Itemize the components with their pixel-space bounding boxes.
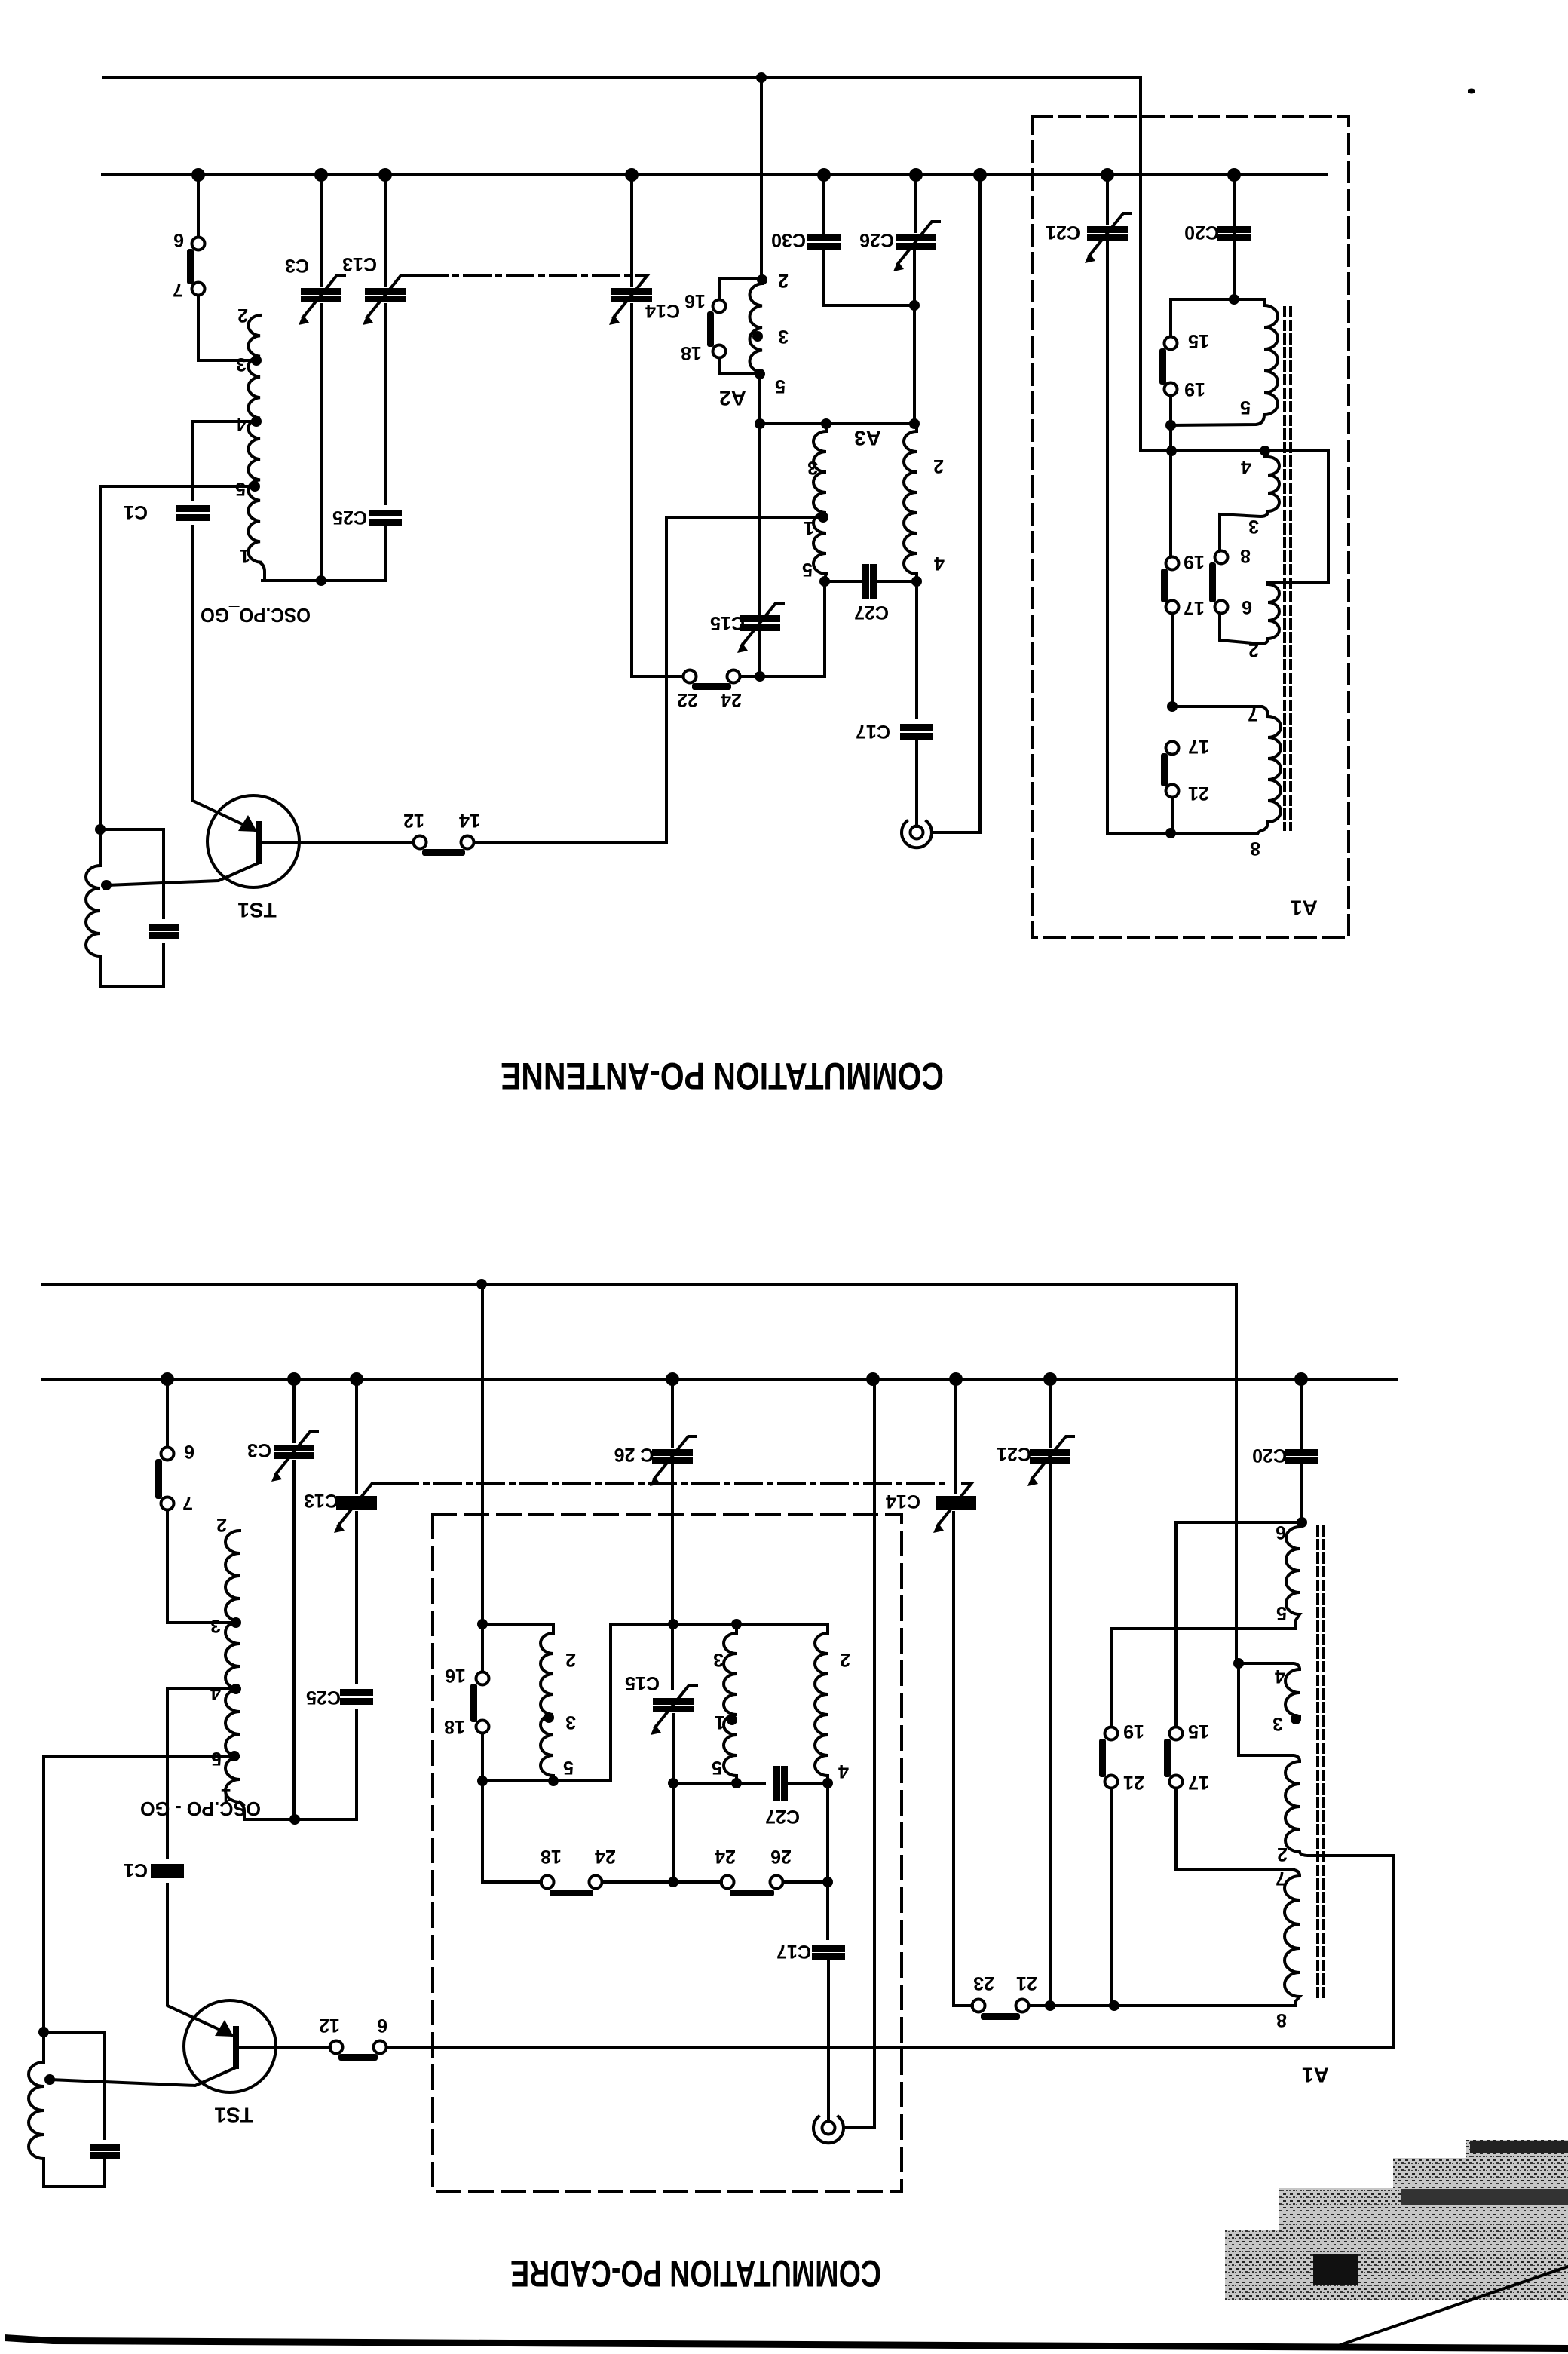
junction bus x=426 bbox=[314, 168, 328, 182]
svg-text:C13: C13 bbox=[342, 253, 377, 274]
svg-text:C26: C26 bbox=[859, 229, 894, 250]
junction C15 node bbox=[668, 1778, 678, 1788]
wire terminal to bus return bbox=[932, 175, 980, 832]
inductor A3 right winding bbox=[904, 424, 917, 574]
wire feed down to winding 2 bbox=[1239, 1663, 1300, 1761]
junction pin1 rail / C3 (lower) bbox=[289, 1814, 300, 1825]
junction A3R bottom bbox=[911, 576, 922, 587]
wire contact18 to A2 pin5 bbox=[719, 358, 759, 373]
switch bar 19-21 bbox=[1099, 1739, 1106, 1777]
wire feed col to cadre top row bbox=[482, 1284, 541, 1882]
wire contact14 to A3 pin1 riser bbox=[474, 517, 666, 842]
switch contact 24a bbox=[590, 1876, 602, 1889]
capacitor C14 trimmer (lower) bbox=[936, 1496, 976, 1503]
svg-text:19: 19 bbox=[1184, 379, 1205, 400]
svg-text:19: 19 bbox=[1123, 1721, 1144, 1742]
junction row / C21 (lower) bbox=[1045, 2000, 1055, 2011]
wire coil1 left side bbox=[1169, 299, 1172, 336]
junction osc pin1 rail / C3 bbox=[316, 575, 326, 586]
switch bar 6-7 bbox=[187, 249, 194, 284]
wire emitter row to A1 right side (lower) bbox=[387, 1856, 1394, 2047]
capacitor C27 (lower) bbox=[773, 1766, 780, 1801]
junction bus x=511 bbox=[378, 168, 392, 182]
junction switch row mid bbox=[668, 1877, 678, 1887]
junction winding3 bottom bbox=[822, 1778, 833, 1788]
svg-text:6: 6 bbox=[377, 2015, 387, 2036]
junction bus2 x=1268 bbox=[949, 1372, 963, 1386]
wire bus to C13 bbox=[384, 175, 387, 285]
junction row / switch21 line bbox=[1109, 2000, 1119, 2011]
wire tank bottom loop bbox=[100, 945, 164, 986]
wire C3 to osc pin1 rail bbox=[320, 305, 323, 581]
inductor A1 winding 6-2 bbox=[1220, 583, 1328, 644]
svg-text:OSC.PO - GO: OSC.PO - GO bbox=[140, 1798, 261, 1820]
junction feed / winding4 (lower) bbox=[1233, 1658, 1244, 1669]
wire C21 down (lower) bbox=[1049, 1466, 1052, 2006]
switch contact 26 bbox=[770, 1876, 783, 1889]
switch contact 18 bbox=[713, 345, 726, 358]
svg-text:C14: C14 bbox=[886, 1491, 920, 1512]
tap A3 pin1 bbox=[818, 512, 828, 523]
svg-text:C14: C14 bbox=[645, 300, 680, 321]
wire bus to contact6 bbox=[166, 1379, 169, 1447]
wire bus to C14 (lower) bbox=[954, 1379, 957, 1493]
inductor tank coil (lower) bbox=[29, 2032, 44, 2159]
svg-text:C21: C21 bbox=[1046, 222, 1080, 243]
junction node mid (A3 pin3) bbox=[821, 418, 831, 429]
switch bar 22-24 bbox=[692, 683, 731, 690]
svg-text:2: 2 bbox=[933, 455, 944, 477]
svg-text:5: 5 bbox=[712, 1757, 722, 1778]
svg-text:A3: A3 bbox=[854, 427, 881, 450]
wire C21 to A1 coil3 bottom bbox=[1107, 243, 1257, 833]
junction cadre mid row left bbox=[477, 1776, 488, 1786]
capacitor C15 trimmer (upper) bbox=[740, 615, 780, 622]
ferrite core dashes (upper A1) bbox=[1285, 308, 1291, 829]
TS1 emitter lead to switch 12 (lower) bbox=[239, 2046, 330, 2049]
wire C13 to C25 bbox=[384, 305, 387, 504]
wire A3 pin1 to emitter riser bbox=[666, 516, 823, 519]
junction bus x=1300 bbox=[973, 168, 987, 182]
junction top row at coil 3-1-5 bbox=[731, 1619, 742, 1629]
svg-text:5: 5 bbox=[235, 478, 246, 499]
inductor osc transformer PO-GO winding (upper) bbox=[248, 315, 260, 562]
antenna terminal (lower) bbox=[813, 2116, 844, 2143]
svg-text:2: 2 bbox=[1248, 639, 1259, 661]
wire A2 pin5 to node bbox=[758, 374, 761, 424]
svg-text:6: 6 bbox=[1276, 1522, 1286, 1543]
svg-text:C1: C1 bbox=[124, 1859, 148, 1880]
svg-text:21: 21 bbox=[1016, 1972, 1037, 1994]
switch contact 7 (upper) bbox=[192, 283, 205, 296]
capacitor C26 trimmer bbox=[896, 234, 936, 241]
svg-text:17: 17 bbox=[1184, 597, 1205, 618]
wire top row C15 to coil2 bbox=[673, 1623, 828, 1626]
svg-text:24: 24 bbox=[715, 1846, 736, 1867]
svg-text:A1: A1 bbox=[1291, 897, 1318, 920]
wire A1 mid row (lower) bbox=[1111, 1627, 1295, 1630]
switch bar 18-24 bbox=[550, 1890, 593, 1896]
svg-text:C30: C30 bbox=[771, 229, 806, 250]
svg-text:C21: C21 bbox=[997, 1443, 1031, 1464]
switch contact 17 bbox=[1166, 601, 1179, 614]
svg-text:3: 3 bbox=[565, 1712, 576, 1733]
bus: lower supply rail bbox=[43, 1378, 1396, 1381]
wire A3L bottom to pin5 junction bbox=[825, 574, 826, 581]
svg-text:C17: C17 bbox=[776, 1941, 811, 1962]
switch bar 12-14 bbox=[422, 849, 465, 856]
wire A2 pin 2 riser (crosses bus) bbox=[760, 78, 763, 278]
inductor A1 winding 2 (lower) bbox=[1285, 1761, 1394, 1856]
switch bar 15-19 bbox=[1159, 348, 1166, 385]
wire C17 to terminal (lower) bbox=[827, 1959, 830, 2122]
wire osc coil pin1 to bottom rail bbox=[260, 562, 385, 581]
capacitor C26 trimmer (lower) bbox=[652, 1449, 693, 1456]
svg-text:C1: C1 bbox=[124, 501, 148, 523]
svg-text:15: 15 bbox=[1188, 330, 1209, 351]
inductor tank coil (upper) bbox=[86, 829, 100, 956]
svg-text:5: 5 bbox=[775, 375, 786, 397]
wire pin5 to tank top (lower) bbox=[44, 1756, 234, 2032]
svg-text:C 26: C 26 bbox=[614, 1444, 654, 1465]
wire C15 to node row bbox=[672, 1715, 675, 1783]
switch bar 12-6 bbox=[338, 2054, 378, 2061]
switch contact 17b bbox=[1166, 742, 1179, 755]
junction tank tap bbox=[101, 880, 112, 890]
wire terminal to bus return (lower) bbox=[844, 1379, 874, 2128]
tap pin4 (lower) bbox=[231, 1684, 241, 1694]
TS1 base lead to tank tap (lower) bbox=[50, 2067, 236, 2086]
wire C13 to C25 (lower) bbox=[355, 1513, 358, 1683]
junction A2 pin5 bbox=[755, 369, 765, 379]
junction bus2 x=1393 bbox=[1043, 1372, 1057, 1386]
switch contact 19 (lower) bbox=[1105, 1727, 1118, 1740]
wire bus to contact 6 bbox=[197, 175, 200, 237]
wire between switch pairs bbox=[602, 1880, 721, 1884]
switch contact 21b bbox=[1016, 2000, 1029, 2012]
svg-text:14: 14 bbox=[459, 810, 480, 831]
junction bus2 x=892 bbox=[666, 1372, 679, 1386]
wire C20 to A1 coil1 top bbox=[1233, 240, 1236, 299]
junction bus x=1215 bbox=[909, 168, 923, 182]
wire C20 to A1 coil top (lower) bbox=[1300, 1463, 1303, 1522]
wire Z-link to C15 top bbox=[553, 1624, 673, 1781]
svg-text:COMMUTATION PO-CADRE: COMMUTATION PO-CADRE bbox=[510, 2252, 881, 2294]
TS1 base bar bbox=[256, 821, 262, 864]
junction bus x=1469 bbox=[1101, 168, 1114, 182]
svg-text:7: 7 bbox=[173, 279, 183, 300]
svg-text:21: 21 bbox=[1188, 783, 1209, 804]
wire winding3 line to C17 (lower) bbox=[826, 1882, 829, 1939]
ferrite core dashes (lower A1) bbox=[1318, 1527, 1324, 1998]
svg-text:3: 3 bbox=[713, 1649, 724, 1670]
svg-text:16: 16 bbox=[684, 290, 706, 311]
collector arrowhead TS1 (lower) bbox=[215, 2020, 234, 2037]
switch bar 16-18 (lower) bbox=[470, 1684, 477, 1722]
wire C30 bottom to C26 line bbox=[824, 248, 914, 305]
wire contact19 to loop bottom bbox=[1169, 396, 1172, 425]
inductor A1 winding 4-3 (lower) bbox=[1285, 1669, 1300, 1716]
wire contact7 to osc pin3 bbox=[167, 1510, 234, 1623]
switch contact 6b bbox=[1215, 601, 1228, 614]
node line A2/A3 bbox=[760, 422, 914, 425]
wire 19-riser bbox=[1110, 1629, 1113, 1727]
switch contact 17 (lower) bbox=[1170, 1776, 1183, 1788]
junction bus x=1093 bbox=[817, 168, 831, 182]
junction winding1 bottom bbox=[548, 1776, 559, 1786]
wire winding3 to switch row bbox=[826, 1783, 829, 1882]
svg-text:4: 4 bbox=[236, 413, 247, 434]
tap cadre pin1 bbox=[727, 1715, 737, 1725]
switch contact 23 bbox=[972, 2000, 985, 2012]
svg-text:18: 18 bbox=[444, 1716, 465, 1737]
junction C26 line top row bbox=[668, 1619, 678, 1629]
junction node right bbox=[909, 418, 920, 429]
wire 17 to winding3 row bbox=[1171, 614, 1174, 707]
inductor osc transformer winding (lower) bbox=[225, 1531, 240, 1802]
junction winding2 bottom bbox=[731, 1778, 742, 1788]
tap pin 3 bbox=[251, 355, 262, 366]
switch contact 18b bbox=[541, 1876, 554, 1889]
capacitor C14 trimmer bbox=[611, 288, 652, 295]
svg-text:12: 12 bbox=[403, 810, 424, 831]
inductor cadre winding 2-3-5 bbox=[541, 1624, 553, 1781]
bus: upper supply rail bbox=[103, 173, 1327, 176]
junction feed line bbox=[476, 1279, 487, 1289]
wire C26 down to C15 bbox=[671, 1466, 674, 1689]
svg-text:4: 4 bbox=[210, 1682, 221, 1703]
junction bus2 x=473 bbox=[350, 1372, 363, 1386]
svg-text:A2: A2 bbox=[719, 387, 746, 410]
switch contact 15 (lower) bbox=[1170, 1727, 1183, 1740]
svg-text:3: 3 bbox=[1248, 516, 1259, 537]
junction tank top bbox=[95, 824, 106, 835]
svg-text:18: 18 bbox=[681, 342, 702, 363]
capacitor C20 (upper) bbox=[1217, 226, 1251, 233]
junction bus2 x=222 bbox=[161, 1372, 174, 1386]
wire winding3 top row bbox=[1172, 707, 1268, 716]
switch contact 14 bbox=[461, 836, 474, 849]
tap pin 4 bbox=[251, 416, 262, 427]
svg-text:26: 26 bbox=[770, 1846, 792, 1867]
switch contact 8 bbox=[1215, 551, 1228, 564]
wire cadre mid row bbox=[482, 1779, 553, 1782]
svg-text:C3: C3 bbox=[285, 255, 309, 276]
svg-text:12: 12 bbox=[319, 2015, 340, 2036]
capacitor C1 (upper) bbox=[176, 505, 210, 512]
switch contact 24 bbox=[727, 670, 740, 683]
svg-text:7: 7 bbox=[182, 1492, 193, 1513]
wire bus to C3 bbox=[320, 175, 323, 285]
wire bus to C14 bbox=[630, 175, 633, 285]
tap A2 pin3 bbox=[752, 331, 763, 342]
wire bus to C21 bbox=[1106, 175, 1109, 223]
switch contact 7 (lower) bbox=[161, 1497, 174, 1510]
wire pin5 to tank top bbox=[100, 486, 255, 829]
wire pin5 down to switch 24 bbox=[740, 581, 825, 676]
svg-text:5: 5 bbox=[211, 1748, 222, 1769]
capacitor C3 trimmer bbox=[301, 288, 341, 295]
svg-text:23: 23 bbox=[973, 1972, 994, 1994]
svg-text:4: 4 bbox=[934, 553, 945, 574]
capacitor C21 trimmer (upper) bbox=[1087, 226, 1128, 233]
svg-text:3: 3 bbox=[1272, 1713, 1283, 1734]
svg-text:2: 2 bbox=[216, 1514, 227, 1535]
switch contact 6 (lower) bbox=[161, 1448, 174, 1461]
junction C30/C26 bbox=[909, 300, 920, 311]
svg-text:C13: C13 bbox=[304, 1490, 338, 1511]
wire switch21 to coil8 row bbox=[1029, 2004, 1295, 2007]
wire contact 7 to osc coil pin 3 bbox=[198, 296, 254, 360]
capacitor C27 (upper) bbox=[862, 564, 869, 599]
junction cadre top row left bbox=[477, 1619, 488, 1629]
wire 15-riser bbox=[1174, 1522, 1178, 1727]
capacitor C25 (lower) bbox=[340, 1689, 373, 1696]
svg-text:5: 5 bbox=[1276, 1602, 1287, 1623]
wire C26 to node bbox=[913, 251, 916, 424]
junction feed row / coil2 bbox=[1260, 446, 1270, 456]
inductor A1 winding 15-19-5 bbox=[1171, 299, 1278, 425]
tap cadre pin3 bbox=[544, 1712, 554, 1723]
wire osc pin1 to bottom rail (lower) bbox=[240, 1802, 355, 1819]
inductor A2 winding bbox=[749, 284, 762, 372]
svg-text:3: 3 bbox=[778, 326, 789, 347]
switch bar 15-17 bbox=[1164, 1739, 1171, 1777]
svg-text:7: 7 bbox=[1276, 1868, 1286, 1889]
switch bar 16-18 bbox=[707, 311, 714, 347]
capacitor C15 trimmer (lower) bbox=[653, 1698, 694, 1705]
switch contact 21 (lower) bbox=[1105, 1776, 1118, 1788]
wire bus to C20 bbox=[1233, 175, 1236, 234]
junction switch row right bbox=[822, 1877, 833, 1887]
wire C1 to TS1 collector bbox=[193, 526, 255, 830]
wire bus to C20 (lower) bbox=[1300, 1379, 1303, 1449]
TS1 base bar (lower) bbox=[233, 2026, 239, 2069]
wire C14 down to switch 22 row bbox=[632, 305, 683, 676]
svg-text:C20: C20 bbox=[1184, 222, 1219, 243]
cadre dashed enclosure bbox=[433, 1515, 902, 2191]
wire A1 top row (lower) bbox=[1176, 1521, 1302, 1524]
inductor cadre winding 3-1-5 bbox=[724, 1624, 737, 1783]
wire bus to C26 bbox=[671, 1379, 674, 1446]
wire C15 to switch row bbox=[758, 633, 761, 676]
capacitor C25 bbox=[369, 510, 402, 516]
svg-text:8: 8 bbox=[1276, 2009, 1287, 2031]
inductor A1 winding 6-5 (lower) bbox=[1286, 1522, 1302, 1629]
switch bar 24-26 bbox=[730, 1890, 774, 1896]
junction tank top (lower) bbox=[38, 2027, 49, 2037]
svg-text:1: 1 bbox=[240, 545, 250, 566]
switch contact 6c (lower) bbox=[374, 2041, 387, 2054]
tap pin3 (lower) bbox=[231, 1617, 241, 1628]
svg-text:15: 15 bbox=[1188, 1721, 1209, 1742]
capacitor C13 trimmer bbox=[365, 288, 406, 295]
svg-text:5: 5 bbox=[1240, 397, 1251, 418]
svg-text:3: 3 bbox=[236, 354, 247, 375]
wire bus to C3 (lower) bbox=[292, 1379, 296, 1442]
wire bus to C30 bbox=[822, 175, 825, 234]
collector arrowhead TS1 bbox=[238, 815, 257, 832]
TS1 base lead to tank tap bbox=[106, 863, 259, 885]
capacitor tank (lower, unlabeled) bbox=[90, 2144, 120, 2151]
svg-text:2: 2 bbox=[237, 305, 248, 326]
inductor A1 winding 7-8 (lower) bbox=[1285, 1870, 1300, 2006]
svg-text:OSC.PO_GO: OSC.PO_GO bbox=[201, 604, 311, 627]
capacitor C1 (lower) bbox=[151, 1864, 184, 1871]
switch contact 16 bbox=[713, 300, 726, 313]
junction loop1 bottom bbox=[1165, 420, 1176, 431]
wire A3R bottom join bbox=[915, 574, 918, 581]
svg-text:C15: C15 bbox=[710, 612, 745, 633]
junction bus x=1637 bbox=[1227, 168, 1241, 182]
svg-text:TS1: TS1 bbox=[214, 2104, 253, 2127]
gang link C13-C14 dash-dot bbox=[421, 274, 638, 277]
gang link C13-C26-C14 dash-dot (lower) bbox=[392, 1482, 947, 1485]
svg-text:C20: C20 bbox=[1252, 1445, 1287, 1466]
junction winding3 row bbox=[1167, 701, 1178, 712]
wire tank bottom loop (lower) bbox=[44, 2158, 105, 2187]
svg-text:6: 6 bbox=[184, 1441, 194, 1462]
wire loop1 bottom to feed row bbox=[1169, 425, 1172, 556]
svg-text:1: 1 bbox=[715, 1712, 725, 1733]
svg-text:8: 8 bbox=[1250, 838, 1260, 859]
wire pin4 to C1 branch (lower) bbox=[167, 1689, 236, 1858]
inductor A3 left winding bbox=[813, 424, 826, 574]
wire node to C15 bbox=[758, 424, 761, 613]
switch contact 15 bbox=[1165, 337, 1178, 350]
svg-text:4: 4 bbox=[1275, 1666, 1285, 1687]
svg-text:2: 2 bbox=[1277, 1844, 1288, 1865]
tap pin 5 bbox=[250, 481, 260, 492]
wire 21 to bottom row bbox=[1171, 798, 1174, 833]
svg-text:A1: A1 bbox=[1302, 2064, 1329, 2087]
svg-text:1: 1 bbox=[804, 517, 814, 538]
svg-text:2: 2 bbox=[840, 1649, 850, 1670]
junction on feed line at A2 pin 2 riser bbox=[756, 72, 767, 83]
switch contact 12 bbox=[414, 836, 427, 849]
junction node left bbox=[755, 418, 765, 429]
svg-text:17: 17 bbox=[1188, 1772, 1209, 1793]
inductor A1 winding 4-3 bbox=[1220, 451, 1279, 550]
junction A2 pin2 bbox=[757, 274, 767, 285]
wire C15 node to switch row bbox=[672, 1783, 675, 1882]
A1 coil1 loop top bbox=[1171, 298, 1264, 301]
svg-text:21: 21 bbox=[1123, 1772, 1144, 1793]
wire 21 to bottom row (lower) bbox=[1110, 1788, 1113, 2006]
capacitor C3 trimmer (lower) bbox=[274, 1445, 314, 1451]
wire C25 to rail end (lower) bbox=[355, 1710, 358, 1819]
capacitor C13 trimmer (lower) bbox=[336, 1496, 377, 1503]
switch contact 16 (lower) bbox=[476, 1672, 489, 1685]
svg-text:C3: C3 bbox=[247, 1439, 271, 1461]
junction C15 / switch row bbox=[755, 671, 765, 682]
transistor TS1 (upper) circle bbox=[207, 795, 299, 887]
capacitor C17 (upper) bbox=[900, 724, 933, 731]
capacitor tank (upper, unlabeled) bbox=[149, 924, 179, 931]
svg-text:5: 5 bbox=[802, 559, 813, 580]
switch contact 19b bbox=[1166, 557, 1179, 570]
wire bus to C13 (lower) bbox=[355, 1379, 358, 1493]
junction bottom row bbox=[1165, 828, 1176, 838]
switch contact 21 bbox=[1166, 785, 1179, 798]
junction A1 coil6 top bbox=[1297, 1517, 1307, 1528]
node: lower feed line bbox=[43, 1284, 1236, 1663]
switch contact 12 (lower) bbox=[330, 2041, 343, 2054]
capacitor C21 trimmer (lower) bbox=[1030, 1449, 1070, 1456]
wire cadre top row bbox=[482, 1623, 553, 1626]
tap pin3 (A1 lower) bbox=[1291, 1714, 1301, 1724]
junction bus2 x=1158 bbox=[866, 1372, 880, 1386]
